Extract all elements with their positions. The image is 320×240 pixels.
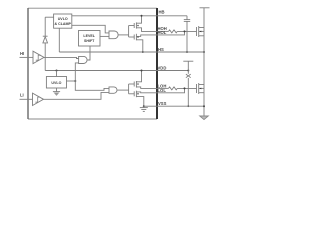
node dot HB rail tap — [141, 15, 143, 17]
capacitor C1 bootstrap — [184, 16, 190, 52]
node dot Q4 source to VSS — [143, 105, 145, 107]
svg-text:UVLO: UVLO — [58, 17, 68, 21]
box UVLO — [46, 71, 66, 89]
wire gate G1 output riser to LEVEL SHIFT bottom — [87, 46, 90, 60]
node dot cap to HS — [186, 51, 188, 53]
wire VSS external — [157, 105, 204, 107]
wire VDD external — [157, 70, 188, 72]
box UVLO & CLAMP — [54, 14, 72, 28]
wire LEVEL SHIFT output to gate G2 lower input — [100, 35, 109, 37]
svg-text:HS: HS — [158, 47, 164, 52]
svg-text:VDD: VDD — [158, 66, 167, 71]
node dot UVLO branch — [74, 80, 76, 82]
resistor R1 HOH gate resistor — [169, 30, 178, 33]
svg-text:VSS: VSS — [158, 101, 167, 106]
node dot VDD rail tap low — [141, 70, 143, 72]
wire low splitter vertical — [128, 84, 130, 94]
svg-text:SHIFT: SHIFT — [84, 39, 95, 43]
gate G2 high-side driver AND — [109, 31, 118, 39]
svg-text:LI: LI — [20, 93, 24, 98]
wire UVLO branch up to gate G1 lower input — [75, 63, 78, 81]
node dot VDD to UVLO — [56, 70, 58, 72]
svg-text:UVLO: UVLO — [51, 81, 61, 85]
wire HS internal rail — [59, 51, 157, 53]
node dot HOL joins HOH — [184, 30, 186, 32]
wire VDD rail internal — [45, 70, 157, 72]
capacitor C2 VDD bypass — [186, 71, 191, 107]
wire gate G3 output to splitter — [117, 89, 129, 91]
wire LI input — [20, 98, 33, 100]
wire high splitter vertical — [128, 26, 130, 38]
node dot VDD external — [187, 70, 189, 72]
ground symbol under UVLO — [53, 88, 60, 96]
wire HS external — [157, 51, 204, 53]
wire HB external — [157, 15, 187, 17]
node dot C2 to VSS — [187, 105, 189, 107]
wire HI buffer output to gate G1 — [44, 57, 79, 58]
svg-text:HOL: HOL — [158, 30, 167, 35]
IC boundary rectangle — [28, 8, 157, 119]
node dot LOL joins LOH — [184, 87, 186, 89]
wire HI input — [20, 56, 34, 58]
wire UVLO output — [67, 80, 76, 82]
svg-text:LEVEL: LEVEL — [83, 34, 95, 38]
node dot HS to Q5 source — [203, 51, 205, 53]
buffer U1 HI input buffer — [33, 51, 44, 63]
svg-text:HI: HI — [20, 51, 24, 56]
transistor Q5 external high-side FET — [197, 26, 205, 37]
wire external FET column — [203, 8, 205, 116]
transistor Q1 internal high pull-up — [129, 16, 157, 32]
svg-text:HB: HB — [159, 10, 165, 15]
gate G3 low-side driver AND — [109, 87, 117, 93]
wire UVLO branch down to gate G3 upper input — [75, 81, 109, 90]
node dot VSS to Q6 source — [203, 105, 205, 107]
node dot Q2 source to HS — [142, 51, 144, 53]
wire HOL external — [157, 31, 185, 35]
wire UVLO&CLAMP left stub to diode line — [45, 16, 53, 18]
resistor R2 LOH gate resistor — [169, 87, 178, 90]
transistor Q4 internal low pull-down — [129, 91, 157, 107]
ground symbol external — [200, 116, 209, 120]
wire HOH external to resistor — [157, 30, 169, 32]
wire gate G2 output to splitter — [118, 34, 128, 36]
box LEVEL SHIFT — [79, 31, 101, 47]
power T-bar VDD supply — [183, 61, 193, 70]
wire UVLO&CLAMP bottom stub to HS rail — [58, 28, 60, 52]
wire LOH resistor to Q6 gate — [177, 87, 196, 89]
power rail T-bar HV input — [200, 7, 210, 9]
gate G1 high-side input AND — [79, 56, 87, 63]
diode D1 bootstrap — [43, 17, 48, 70]
transistor Q2 internal high pull-down — [129, 34, 157, 52]
wire LOL external — [157, 88, 185, 92]
wire LI buffer output to gate G3 — [44, 92, 110, 99]
transistor Q3 internal low pull-up — [129, 71, 157, 89]
wire LOH external to resistor — [157, 87, 169, 89]
svg-text:LOL: LOL — [158, 88, 167, 93]
wire HB rail from UVLO&CLAMP to boundary — [72, 15, 157, 17]
wire VSS internal — [144, 105, 157, 107]
transistor Q6 external low-side FET — [197, 83, 205, 94]
wire HOH resistor to Q5 gate — [177, 30, 196, 32]
svg-text:& CLAMP: & CLAMP — [55, 22, 72, 26]
wire UVLO&CLAMP output to gate G2 upper input — [72, 25, 109, 33]
buffer U2 LI input buffer — [33, 93, 44, 105]
ground symbol internal VSS — [140, 106, 148, 111]
